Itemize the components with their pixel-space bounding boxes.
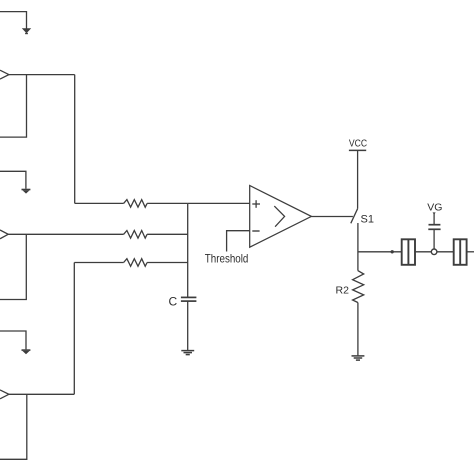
wire R row 3 left lead	[74, 262, 123, 264]
svg-text:VCC: VCC	[349, 138, 367, 149]
svg-text:R2: R2	[336, 285, 350, 297]
wire ground lead of op-amp U3	[0, 171, 26, 189]
ground (below R2)	[352, 356, 365, 360]
wire node A to op-amp U1 + input	[188, 202, 250, 204]
VG port marker	[433, 212, 436, 215]
wire U4 output rise to R row 3	[73, 263, 75, 395]
wire capacitor to node B	[433, 229, 435, 249]
op-amp U1 comparator	[250, 186, 312, 248]
wire U4 output	[9, 393, 74, 395]
node A summing bus	[187, 203, 189, 297]
resistor (row 3)	[124, 259, 148, 267]
wire U3 feedback branch	[0, 234, 26, 299]
junction dot	[391, 250, 394, 253]
wire U2 feedback branch	[0, 75, 27, 138]
resistor R2	[353, 271, 364, 303]
ground (below C)	[181, 351, 194, 355]
wire S1 to junction and R2	[357, 223, 359, 271]
svg-text:Threshold: Threshold	[205, 251, 249, 265]
wire U3 output / R row 2 left lead	[8, 233, 123, 235]
switch S1 blade	[351, 209, 358, 224]
wire ground lead of op-amp U4	[0, 331, 26, 349]
ground (lower left)	[22, 349, 31, 354]
wire U2 output to corner	[9, 74, 75, 76]
wire VCC to switch S1	[357, 150, 359, 208]
junction at switch output node	[358, 251, 402, 253]
contact block 2 (right)	[454, 239, 467, 264]
wire contact block 1 to node B	[415, 251, 431, 253]
contact block 1 (left)	[402, 239, 415, 264]
wire ground lead of op-amp U2 (top left)	[0, 12, 27, 29]
wire U4 feedback branch	[0, 394, 27, 459]
op-amp U2 output tip (left edge)	[0, 70, 9, 79]
wire C to ground	[187, 301, 189, 350]
wire U2 output drop to R row 1	[74, 75, 76, 204]
svg-text:S1: S1	[361, 214, 374, 226]
resistor (row 2)	[124, 231, 148, 239]
op-amp U1 - input marking	[252, 230, 259, 232]
wire R2 to ground	[357, 303, 359, 356]
svg-text:C: C	[169, 295, 178, 309]
wire R row 1 right lead to node A	[147, 202, 188, 204]
wire R row 2 right lead to node A	[147, 233, 188, 235]
node B (open circle)	[431, 249, 437, 255]
op-amp U1 hysteresis chevron	[274, 206, 284, 227]
wire U1 output to switch S1	[311, 216, 353, 218]
svg-text:VG: VG	[427, 201, 442, 213]
wire R row 3 right lead to node A	[147, 262, 188, 264]
capacitor (VG coupling)	[428, 225, 440, 230]
op-amp U4 output tip (left edge)	[0, 390, 9, 399]
ground (arrow style, top left)	[22, 28, 31, 34]
wire R row 1 left lead	[75, 202, 124, 204]
wire node B to contact block 2	[437, 251, 454, 253]
capacitor C	[181, 297, 197, 301]
wire contact block 2 to edge	[467, 251, 474, 253]
resistor (row 1)	[124, 200, 148, 208]
wire VG to capacitor	[433, 214, 435, 225]
wire Threshold to U1 - input	[227, 231, 250, 252]
ground (middle left)	[22, 189, 31, 194]
VCC power rail bar	[349, 149, 366, 151]
op-amp U3 output tip (left edge)	[0, 230, 8, 239]
op-amp U1 + input marking	[252, 200, 260, 208]
